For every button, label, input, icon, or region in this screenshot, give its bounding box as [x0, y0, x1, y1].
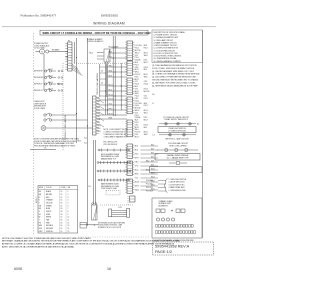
wire WH-2 — [108, 66, 128, 68]
element wire plain with terminals — [98, 149, 130, 152]
connector J2 divider 5 — [127, 72, 133, 74]
connector J5 wire-in stub 4 — [125, 127, 127, 129]
connector J7 body — [127, 161, 133, 175]
svg-text:RD-6 BK: RD-6 BK — [135, 117, 141, 119]
svg-text:BU-8: BU-8 — [135, 62, 138, 64]
connector J5 wire-in stub 1 — [125, 120, 127, 122]
connector J6 pin stub 2 — [133, 147, 135, 149]
wire color table row T — [39, 219, 69, 222]
svg-text:BK-21: BK-21 — [144, 132, 148, 134]
svg-text:3. DOOR SWITCH N.C.: 3. DOOR SWITCH N.C. — [169, 184, 186, 186]
svg-text:PROCEDURE AND RESISTANCE VALUE: PROCEDURE AND RESISTANCE VALUES OF UNITS — [34, 144, 76, 147]
svg-text:VIOLET: VIOLET — [46, 211, 52, 213]
connector J1 pin stub 6 — [133, 53, 135, 55]
wire color table row GN — [39, 205, 69, 207]
legend heading — [159, 200, 174, 208]
svg-text:BK-6: BK-6 — [151, 152, 154, 154]
svg-text:BK-21: BK-21 — [144, 74, 148, 76]
svg-text:TDB 101.5V AC HARNESS: TDB 101.5V AC HARNESS — [96, 72, 99, 95]
svg-text:P24-3: P24-3 — [135, 48, 139, 50]
svg-text:GREEN: GREEN — [46, 205, 52, 207]
ladder rung 6 — [100, 95, 107, 97]
svg-text:BK-17: BK-17 — [135, 79, 139, 81]
svg-text:BU-5: BU-5 — [144, 127, 147, 129]
wire color code table box — [38, 186, 78, 233]
door latch switch symbol — [44, 118, 58, 121]
connector J5 wire-in stub 7 — [125, 135, 127, 137]
svg-text:BROIL ELEMENT 3400W: BROIL ELEMENT 3400W — [101, 154, 120, 156]
svg-text:P24-5 WH P24-8 GY: P24-5 WH P24-8 GY — [104, 144, 118, 146]
svg-text:B-1: B-1 — [197, 124, 200, 126]
svg-text:RD-14: RD-14 — [144, 84, 148, 86]
svg-text:(5)- SEE PAGE 2 FOR OVEN CIRCU: (5)- SEE PAGE 2 FOR OVEN CIRCUIT, FAULT … — [152, 81, 196, 84]
svg-text:8: 8 — [68, 211, 69, 213]
junction dots on center bus — [113, 57, 114, 58]
diagram bottom dashed border segment — [78, 236, 150, 238]
connector J6 wire-in stub 4 — [125, 151, 127, 153]
connector J3 pin stub 6 — [133, 90, 135, 92]
svg-text:BU-3: BU-3 — [135, 170, 139, 172]
center vertical wire L1a — [112, 36, 114, 116]
svg-text:1C-2: 1C-2 — [84, 143, 87, 145]
connector J8 wire-in stub 4 — [125, 186, 127, 188]
svg-text:16: 16 — [61, 200, 63, 202]
svg-text:BK-10: BK-10 — [151, 168, 155, 170]
svg-text:P24-7: P24-7 — [144, 105, 148, 107]
supply bus vertical wire — [43, 54, 45, 91]
svg-text:P24-3: P24-3 — [135, 105, 139, 107]
svg-text:WH-8: WH-8 — [144, 134, 148, 136]
svg-text:P13-1: P13-1 — [135, 115, 139, 117]
svg-text:OR-9: OR-9 — [144, 81, 148, 83]
element symbol row — [169, 162, 187, 165]
connector J3 divider 3 — [127, 84, 133, 86]
svg-text:INF SW RR: INF SW RR — [34, 77, 44, 79]
tick row element — [165, 149, 167, 151]
junction node vline TB — [76, 38, 78, 64]
svg-text:RD-11: RD-11 — [109, 84, 113, 86]
connector strip DH divider 5 — [93, 110, 97, 112]
svg-text:RD-9: RD-9 — [135, 134, 139, 136]
svg-text:P1-5 OR-2: P1-5 OR-2 — [146, 184, 153, 186]
connector J7 pin stub 2 — [133, 164, 135, 166]
svg-text:P24-3: P24-3 — [144, 88, 148, 90]
connector P1 pin stub 8 — [65, 61, 67, 63]
svg-text:120VAC SUPPLY SEE NOTE 4: 120VAC SUPPLY SEE NOTE 4 — [164, 118, 188, 121]
svg-text:GN: GN — [39, 205, 41, 207]
svg-text:5-8: 5-8 — [101, 71, 103, 73]
wire WH-9 — [99, 109, 127, 111]
connector J6 divider 2 — [127, 148, 133, 150]
ladder rung 2 — [100, 72, 107, 74]
svg-text:4- BAKE ELEMENT CIRCUIT: 4- BAKE ELEMENT CIRCUIT — [154, 41, 178, 44]
svg-text:(4)- DISCONNECT POWER BEFORE S: (4)- DISCONNECT POWER BEFORE SERVICING U… — [152, 77, 197, 79]
connector J2 wire-in stub 4 — [125, 68, 127, 70]
svg-text:BR-8: BR-8 — [135, 174, 139, 176]
svg-text:15: 15 — [68, 231, 70, 233]
svg-text:DH-4: DH-4 — [97, 107, 100, 109]
connector J9 small body — [130, 196, 136, 202]
svg-text:WH-3: WH-3 — [135, 186, 139, 188]
svg-text:P24-9: P24-9 — [135, 84, 139, 86]
dashed vline to ribbon — [127, 196, 129, 205]
svg-text:WIRE CIRCUIT LT CONSOLE DE NOR: WIRE CIRCUIT LT CONSOLE DE NORMA - CIRCU… — [43, 32, 152, 35]
connector J5 divider 1 — [127, 121, 133, 123]
connector J7 divider 4 — [127, 170, 133, 172]
svg-text:16: 16 — [61, 194, 63, 196]
svg-text:BU-8: BU-8 — [144, 45, 147, 47]
connector J5 pin stub 6 — [133, 132, 135, 134]
connector P1 pin stub 7 — [65, 58, 67, 60]
connector J4 wire-in stub 7 — [125, 112, 127, 114]
wire BU-2 — [108, 90, 128, 92]
connector J5 wire-in stub 5 — [125, 130, 127, 132]
connector J1 wire-in stub 3 — [125, 46, 127, 48]
connector J1 divider 5 — [127, 52, 133, 54]
svg-text:BK-8: BK-8 — [151, 160, 154, 162]
svg-text:(3)- CONNECTOR TERMINALS VIEWE: (3)- CONNECTOR TERMINALS VIEWED FROM WIR… — [152, 73, 200, 76]
svg-text:BK-21: BK-21 — [135, 91, 139, 93]
svg-text:WH-8: WH-8 — [144, 76, 148, 78]
svg-text:P13-1: P13-1 — [135, 57, 139, 59]
svg-text:DH-7: DH-7 — [97, 116, 100, 118]
svg-text:DH-8: DH-8 — [97, 119, 100, 121]
svg-text:CODE: CODE — [61, 187, 66, 189]
connector J6 pin stub 6 — [133, 156, 135, 158]
connector P1 body — [68, 42, 72, 71]
svg-text:GY-9: GY-9 — [135, 166, 139, 168]
svg-text:P24-9: P24-9 — [144, 67, 148, 69]
svg-text:18: 18 — [61, 222, 63, 224]
ribbon cable conductor 3 — [112, 214, 127, 216]
wire color table row R/W — [39, 228, 70, 230]
svg-text:P24-1 BK P24-2 RD: P24-1 BK P24-2 RD — [104, 142, 118, 144]
connector J1 wire-in stub 8 — [125, 58, 127, 60]
svg-text:INF SW LR: INF SW LR — [34, 90, 43, 92]
connector P1 pin stub 6 — [65, 56, 67, 58]
legend square row 2 — [156, 231, 196, 234]
svg-text:GY-7: GY-7 — [135, 88, 138, 90]
connector strip DH body — [93, 96, 97, 135]
svg-text:3-6: 3-6 — [101, 83, 103, 85]
legend plus mark — [171, 210, 173, 212]
svg-text:BK-4: BK-4 — [151, 144, 154, 146]
surface switch INF SW RF — [34, 69, 63, 73]
svg-text:GROUND WIRE MUST BE RECONNECTE: GROUND WIRE MUST BE RECONNECTED TO CHASS… — [152, 79, 199, 82]
wire color table row V — [39, 211, 69, 213]
svg-text:RD-14: RD-14 — [135, 100, 139, 102]
svg-text:BU-5: BU-5 — [144, 69, 147, 71]
connector strip DH divider 6 — [93, 113, 97, 115]
svg-text:BK-30: BK-30 — [109, 113, 113, 115]
svg-text:17-1: 17-1 — [88, 186, 91, 188]
connector J8 pin stub 6 — [133, 191, 135, 193]
latch motor terminal circle 2 — [95, 203, 97, 205]
connector J4 divider 1 — [127, 98, 133, 100]
wire into transformer 2 — [97, 55, 104, 57]
svg-text:17a: 17a — [44, 147, 47, 149]
svg-text:14: 14 — [68, 228, 70, 230]
svg-text:DJ-1 ORG: DJ-1 ORG — [135, 45, 143, 47]
svg-text:OR-6: OR-6 — [109, 70, 113, 72]
svg-text:18: 18 — [61, 202, 63, 204]
connector J8 wire-in stub 5 — [125, 189, 127, 191]
svg-text:NOTE: 1. DISCONNECT TB-1 BK: NOTE: 1. DISCONNECT TB-1 BK — [104, 129, 129, 131]
terminal N circle — [46, 50, 49, 53]
junction dot latch 1 — [87, 224, 88, 225]
wire color table row W — [39, 217, 70, 219]
ladder rung 4 — [100, 84, 107, 86]
broil element coil symbol — [97, 161, 131, 164]
svg-text:L1 N L2 GND: L1 N L2 GND — [34, 48, 45, 50]
svg-text:7- COOLING FAN CIRCUIT: 7- COOLING FAN CIRCUIT — [154, 49, 177, 52]
connector J8 pin stub 5 — [133, 189, 135, 191]
svg-text:OR-9: OR-9 — [135, 98, 139, 100]
ladder rung 3 — [100, 78, 107, 80]
svg-text:DH-3: DH-3 — [97, 104, 100, 106]
svg-text:R/W: R/W — [39, 228, 43, 230]
wire color table row BK — [39, 190, 69, 193]
center note text block — [104, 129, 129, 139]
connector J3 pin stub 5 — [133, 88, 135, 90]
connector J3 divider 6 — [127, 91, 133, 93]
ladder rung 5 — [100, 90, 107, 92]
svg-text:WHT/BLK: WHT/BLK — [46, 225, 54, 227]
connector J6 divider 5 — [127, 155, 133, 157]
console lamp 2 — [177, 123, 180, 126]
connector J7 wire-in stub 3 — [125, 166, 127, 168]
connector J1 pin stub 1 — [133, 41, 135, 43]
svg-text:NOTE 4: NOTE 4 — [36, 197, 38, 203]
connector strip DH stub 7 — [96, 118, 99, 120]
surface control text block — [87, 38, 103, 43]
wire BK-30 — [99, 114, 127, 116]
connector J1 pin stub 5 — [133, 51, 135, 53]
svg-text:LT OVEN LIGHTS 25W: LT OVEN LIGHTS 25W — [168, 131, 186, 133]
connector J5 divider 3 — [127, 126, 133, 128]
connector J2 wire-in stub 6 — [125, 73, 127, 75]
svg-text:(2)- USE REPLACEMENT WIRE RATE: (2)- USE REPLACEMENT WIRE RATED 105 C ON… — [152, 70, 195, 73]
connector J5 wire-in stub 3 — [125, 125, 127, 127]
connector P1 divider 3 — [68, 49, 72, 51]
connector J2 wire-in stub 1 — [125, 61, 127, 63]
svg-text:P13-1: P13-1 — [144, 98, 148, 100]
connector J8 body — [127, 179, 133, 193]
svg-text:3- OVEN LAMP CIRCUIT: 3- OVEN LAMP CIRCUIT — [154, 39, 175, 42]
connector J6 body — [127, 144, 133, 158]
door light switch symbol — [44, 113, 58, 116]
connector J3 wire-in stub 4 — [125, 85, 127, 87]
wire door sw to node V76 — [58, 114, 77, 116]
connector strip DH divider 10 — [93, 125, 97, 127]
surface switch INF SW LR — [34, 88, 63, 92]
connector J1 divider 3 — [127, 47, 133, 49]
connector J5 divider 5 — [127, 131, 133, 133]
connector J4 pin stub 6 — [133, 109, 135, 111]
connector J6 pin stub 3 — [133, 149, 135, 151]
svg-text:DH-9: DH-9 — [97, 122, 100, 124]
svg-text:GY: GY — [39, 214, 41, 216]
connector J1 divider 7 — [127, 57, 133, 59]
connector J4 pin stub 3 — [133, 102, 135, 104]
diagram right border line — [201, 30, 203, 238]
svg-text:P9-2 GY: P9-2 GY — [135, 74, 141, 76]
ribbon cable conductor 1 — [112, 210, 127, 212]
svg-text:VT-5: VT-5 — [135, 178, 138, 180]
connector J4 pin stub 5 — [133, 107, 135, 109]
svg-text:10: 10 — [68, 217, 70, 219]
connector J6 wire-in stub 5 — [125, 154, 127, 156]
connector strip DH divider 8 — [93, 119, 97, 121]
connector P1 pin stub 10 — [65, 66, 67, 68]
connector J3 wire-in stub 3 — [125, 83, 127, 85]
svg-text:1: 1 — [68, 191, 69, 193]
wire color table row PK — [39, 222, 70, 224]
connector J1 wire-in stub 2 — [125, 44, 127, 46]
connector J8 wire-in stub 6 — [125, 191, 127, 193]
connector J7 wire-in stub 5 — [125, 171, 127, 173]
svg-text:WHITE: WHITE — [46, 217, 51, 219]
svg-text:P24-7: P24-7 — [135, 122, 139, 124]
svg-text:BK-6: BK-6 — [135, 146, 139, 148]
ribbon cable conductor 2 — [112, 212, 127, 214]
svg-text:GY-2: GY-2 — [135, 112, 138, 114]
connector strip DH divider 2 — [93, 101, 97, 103]
connector J4 pin stub 4 — [133, 104, 135, 106]
connector J2 pin stub 3 — [133, 66, 135, 68]
connector J7 divider 3 — [127, 167, 133, 169]
svg-text:BK-28: BK-28 — [135, 182, 139, 184]
connector J2 pin stub 1 — [133, 61, 135, 63]
connector J7 wire-in stub 1 — [125, 161, 127, 163]
connector J2 pin stub 4 — [133, 68, 135, 70]
svg-text:BK-11: BK-11 — [144, 52, 148, 54]
connector J7 wire-in stub 6 — [125, 173, 127, 175]
connector ladder right rail — [105, 64, 107, 97]
wire BK-5 — [111, 57, 128, 59]
connector J7 pin stub 3 — [133, 166, 135, 168]
svg-text:T: T — [39, 220, 40, 222]
latch connector small box — [80, 223, 87, 229]
connector P1 pin stub 11 — [65, 69, 67, 71]
svg-text:6: 6 — [68, 205, 69, 207]
connector J5 pin stub 4 — [133, 127, 135, 129]
svg-text:DH-11: DH-11 — [97, 128, 101, 130]
connector J3 divider 4 — [127, 87, 133, 89]
convection element coil symbol — [98, 179, 130, 182]
legend square row 1 — [156, 225, 194, 228]
connector J1 divider 1 — [127, 42, 133, 44]
connector J3 pin stub 4 — [133, 85, 135, 87]
svg-text:OR-4: OR-4 — [135, 162, 139, 164]
wire RD-3 — [111, 52, 128, 54]
wire into transformer 1 — [97, 52, 104, 54]
svg-text:BK-11: BK-11 — [135, 69, 139, 71]
connector J1 pin stub 4 — [133, 48, 135, 50]
door latch motor hatched box — [92, 205, 98, 220]
svg-text:6008: 6008 — [14, 267, 22, 271]
surface switch INF SW RR — [34, 75, 63, 79]
connector strip DH stub 2 — [96, 103, 99, 105]
svg-text:BK-8: BK-8 — [109, 75, 113, 77]
svg-text:BK-11: BK-11 — [144, 110, 148, 112]
svg-text:EW30ES65G: EW30ES65G — [101, 14, 119, 18]
wire lamp to strip DH — [58, 127, 93, 129]
svg-text:Publication No. 5995441477: Publication No. 5995441477 — [21, 14, 57, 18]
svg-text:BK-5: BK-5 — [135, 150, 139, 152]
svg-text:WH-12: WH-12 — [135, 110, 140, 112]
connector J6 wire-in stub 2 — [125, 147, 127, 149]
svg-text:5. OVEN SENSOR 1089: 5. OVEN SENSOR 1089 — [169, 190, 186, 192]
connector J2 pin stub 2 — [133, 64, 135, 66]
console lamp 5 — [183, 134, 186, 137]
tick row element — [185, 149, 187, 151]
connector J8 pin stub 3 — [133, 184, 135, 186]
svg-text:10- TEMPERATURE PROBE: 10- TEMPERATURE PROBE — [154, 57, 178, 60]
svg-text:AVISO: DESCONECTE LA CORRIENTE: AVISO: DESCONECTE LA CORRIENTE ANTES DE … — [2, 246, 75, 249]
svg-text:BU: BU — [39, 208, 41, 210]
connector J3 wire-in stub 5 — [125, 88, 127, 90]
svg-text:TB-3: TB-3 — [57, 83, 61, 85]
legend symbol pair 2 — [176, 209, 185, 213]
connector J8 divider 4 — [127, 188, 133, 190]
svg-text:RD-3: RD-3 — [109, 51, 113, 53]
svg-text:BK-5 RD: BK-5 RD — [144, 91, 150, 93]
connector J1 wire-in stub 6 — [125, 53, 127, 55]
svg-text:17a: 17a — [152, 94, 155, 96]
connector P1 divider 9 — [68, 65, 72, 67]
connector P1 divider 8 — [68, 62, 72, 64]
svg-text:DH-5: DH-5 — [97, 110, 100, 112]
svg-text:BU-5: BU-5 — [135, 86, 138, 88]
connector J7 pin stub 4 — [133, 168, 135, 170]
transformer hatched box — [104, 49, 110, 62]
connector J8 wire-in stub 3 — [125, 184, 127, 186]
junction dot V87 — [87, 125, 88, 126]
svg-text:GN/Y: GN/Y — [39, 231, 43, 233]
connector J4 wire-in stub 5 — [125, 107, 127, 109]
ribbon cable end block right — [127, 209, 130, 218]
svg-text:BK-14: BK-14 — [49, 75, 53, 77]
curly brace — [164, 179, 168, 193]
connector J2 wire-in stub 5 — [125, 71, 127, 73]
svg-text:IMPORTANT: LEAKAGE AND GROUNDI: IMPORTANT: LEAKAGE AND GROUNDING TESTS M… — [2, 240, 180, 243]
svg-text:14: 14 — [61, 231, 63, 233]
connector J5 pin stub 5 — [133, 130, 135, 132]
connector J4 divider 4 — [127, 106, 133, 108]
wide rect bus — [150, 167, 203, 173]
svg-text:16: 16 — [107, 267, 111, 271]
wire color table row O — [39, 199, 69, 202]
connector J5 pin stub 7 — [133, 135, 135, 137]
svg-text:(6)- RESISTANCE VALUES MEASURE: (6)- RESISTANCE VALUES MEASURED AT ROOM … — [152, 84, 198, 87]
center vertical wire N1 — [105, 62, 107, 115]
svg-text:14: 14 — [61, 205, 63, 207]
svg-text:WH-12: WH-12 — [135, 52, 140, 54]
connector J8 pin stub 2 — [133, 182, 135, 184]
connector J7 pin stub 5 — [133, 171, 135, 173]
connector J2 pin stub 5 — [133, 71, 135, 73]
connector J1 divider 6 — [127, 54, 133, 56]
svg-text:CONSOLE LT SIDE HARNESS: CONSOLE LT SIDE HARNESS — [64, 114, 67, 140]
svg-text:Y: Y — [39, 202, 40, 204]
vertical wire V87 — [87, 38, 89, 225]
svg-text:WH-9: WH-9 — [109, 108, 113, 110]
connector P1 pin stub 2 — [65, 45, 67, 47]
ribbon cable conductor 4 — [112, 216, 127, 218]
connector P1 divider 1 — [68, 44, 72, 46]
connector P1 divider 2 — [68, 46, 72, 48]
